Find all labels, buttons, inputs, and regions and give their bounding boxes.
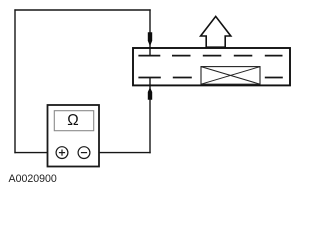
wire left vertical xyxy=(14,9,16,153)
crossed element box xyxy=(201,67,260,85)
probe arrowhead top (pointing down) xyxy=(148,32,152,46)
wire top right vertical probe lead xyxy=(149,9,151,55)
airflow block arrow xyxy=(201,16,231,47)
plus terminal xyxy=(56,147,68,159)
electrode bar top xyxy=(138,55,160,57)
probe arrowhead bottom (pointing up) xyxy=(148,87,152,100)
dashed element line bottom row xyxy=(173,77,192,79)
electrode bar bottom xyxy=(138,77,160,79)
svg-text:A0020900: A0020900 xyxy=(9,173,57,185)
wire bottom left horizontal to plus terminal xyxy=(14,152,57,154)
wire top horizontal xyxy=(14,9,150,11)
wire right vertical from minus side up to sensor xyxy=(149,78,151,154)
dashed element line top row xyxy=(172,55,191,57)
sensor housing box xyxy=(133,48,290,85)
wire bottom right horizontal from minus terminal xyxy=(90,152,151,154)
ohmmeter body xyxy=(48,105,100,167)
minus terminal xyxy=(78,147,90,159)
ohmmeter display xyxy=(54,111,93,131)
svg-text:Ω: Ω xyxy=(67,112,78,129)
